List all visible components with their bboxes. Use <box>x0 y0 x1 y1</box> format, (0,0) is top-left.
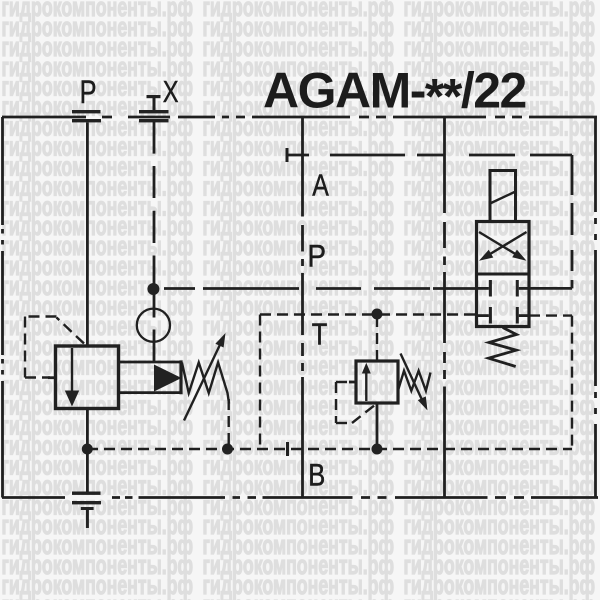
svg-text:P: P <box>80 74 97 110</box>
svg-text:A: A <box>312 168 329 203</box>
svg-text:T: T <box>312 317 328 352</box>
svg-text:AGAM-**/22: AGAM-**/22 <box>263 63 526 125</box>
svg-text:P: P <box>308 238 327 274</box>
svg-text:B: B <box>308 457 325 493</box>
svg-text:X: X <box>163 75 179 109</box>
